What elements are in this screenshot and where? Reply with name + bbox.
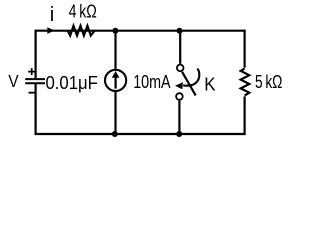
node dot bottom switch [176, 131, 182, 137]
switch K blade [182, 72, 196, 96]
wire right branch upper [244, 30, 246, 68]
switch top contact [177, 65, 184, 72]
wire switch branch lower [178, 101, 180, 134]
switch bottom contact [176, 93, 183, 100]
svg-text:i: i [50, 4, 54, 26]
svg-text:0.01μF: 0.01μF [46, 72, 98, 93]
svg-text:5 kΩ: 5 kΩ [255, 71, 282, 92]
current arrow i on top wire [47, 27, 54, 33]
switch closing arc [183, 69, 199, 86]
wire bottom rail [36, 133, 245, 135]
wire right branch lower [244, 96, 246, 135]
node dot top switch [177, 28, 183, 34]
wire middle branch lower [114, 92, 116, 135]
svg-text:4 kΩ: 4 kΩ [69, 1, 97, 22]
plus sign [28, 68, 35, 75]
wire switch branch upper [179, 31, 181, 64]
switch arc arrowhead [175, 82, 183, 89]
current source I1 circle [105, 70, 126, 91]
resistor R1 4k zigzag [68, 26, 95, 36]
svg-text:K: K [204, 74, 216, 95]
resistor R2 5k zigzag [241, 69, 250, 96]
svg-text:V: V [8, 71, 19, 91]
minus sign [29, 92, 35, 94]
capacitor C 0.01uF plates [25, 79, 45, 83]
node dot top middle [112, 28, 118, 34]
wire left branch lower [34, 84, 36, 135]
wire top rail [36, 30, 245, 32]
svg-text:10mA: 10mA [133, 71, 171, 92]
wire left branch upper [34, 30, 36, 79]
current source arrow up [114, 77, 116, 89]
wire middle branch upper [114, 31, 116, 70]
node dot bottom middle [112, 131, 118, 137]
